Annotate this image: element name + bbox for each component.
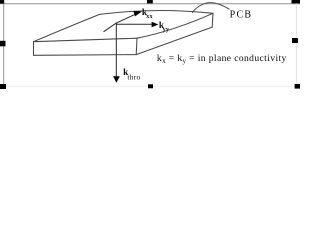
PCB slab box bbox=[34, 11, 214, 56]
handle bottom-left bbox=[0, 84, 6, 89]
svg-text:yy: yy bbox=[163, 27, 169, 33]
handle top-right bbox=[292, 0, 301, 3]
handle top-left bbox=[0, 0, 4, 4]
equation text: kx = ky = in plane conductivity bbox=[157, 53, 287, 65]
wire: front-left vertical edge B-A bbox=[33, 42, 35, 56]
wire: top-right receding edge D-F bbox=[137, 13, 213, 38]
wire: back-top edge E-F bbox=[100, 11, 214, 15]
handle bottom-right bbox=[295, 84, 300, 89]
PCB callout leader curve bbox=[192, 3, 229, 13]
wire: bottom-right receding edge C-G bbox=[136, 27, 212, 54]
handle top-middle bbox=[147, 0, 153, 3]
svg-text:xx: xx bbox=[146, 14, 152, 20]
arrow k_thro (through-plane) bbox=[113, 23, 120, 83]
svg-text:PCB: PCB bbox=[230, 10, 253, 21]
wire: top-left receding edge B-E bbox=[34, 14, 100, 41]
wire: back-right vertical edge F-G bbox=[211, 13, 214, 27]
selection border right bbox=[295, 3, 297, 86]
selection border top bbox=[0, 3, 300, 5]
svg-text:thro: thro bbox=[127, 72, 140, 81]
wire: front-top edge B-D bbox=[34, 38, 138, 42]
handle middle-right bbox=[292, 38, 298, 43]
label PCB bbox=[230, 10, 253, 21]
selection border left bbox=[3, 3, 5, 86]
arrow k_yy (in-plane y direction) bbox=[116, 22, 158, 27]
selection border bottom bbox=[3, 85, 297, 87]
label k_thro bbox=[123, 68, 140, 82]
svg-text:kx = ky = in plane conductivit: kx = ky = in plane conductivity bbox=[157, 53, 287, 65]
wire: front-right vertical edge C-D bbox=[135, 38, 138, 54]
wire: front-bottom edge A-C bbox=[34, 54, 137, 57]
label k_yy bbox=[159, 20, 169, 33]
handle bottom-middle bbox=[148, 84, 153, 88]
arrow k_xx (in-plane x direction) bbox=[104, 11, 142, 32]
handle middle-left bbox=[0, 41, 6, 47]
label k_xx bbox=[142, 7, 153, 20]
